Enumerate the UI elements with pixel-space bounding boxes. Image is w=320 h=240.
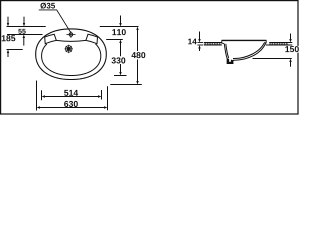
dim 110 reference line R2 bbox=[106, 39, 123, 41]
depth reference line bbox=[253, 58, 292, 60]
tap hole bbox=[69, 33, 73, 37]
dim 14 tick bottom bbox=[197, 44, 203, 46]
dim 514 extension right bbox=[101, 90, 103, 100]
label 185 bbox=[2, 35, 16, 41]
dim 55 reference line L2 bbox=[7, 34, 43, 36]
label 55 bbox=[18, 29, 25, 34]
label 514 bbox=[64, 90, 78, 96]
counter bottom line right bbox=[266, 44, 293, 46]
dim 480 arrow top bbox=[136, 27, 138, 52]
label 150 bbox=[285, 46, 299, 53]
bowl outer bottom curve bbox=[233, 43, 266, 60]
basin outer rim ellipse bbox=[36, 29, 107, 80]
dim 14 arrow top bbox=[198, 32, 200, 43]
label 480 bbox=[131, 52, 147, 59]
dim 150 arrow bottom bbox=[289, 59, 291, 67]
label 630 bbox=[64, 101, 78, 107]
counter bottom line left bbox=[204, 44, 222, 46]
counter hatch right bbox=[269, 43, 288, 46]
dim 185 arrow top bbox=[7, 17, 9, 27]
dim 330 arrow bottom bbox=[119, 64, 121, 76]
dim 330 reference line R3 bbox=[114, 75, 127, 77]
dim 14 arrow bottom bbox=[198, 45, 200, 51]
bowl inner bottom curve bbox=[233, 43, 265, 59]
dim 185 reference line L3 bbox=[7, 49, 23, 51]
dim 630 extension right bbox=[107, 86, 109, 110]
dim 630 line bbox=[37, 106, 108, 108]
dim 480 arrow bottom bbox=[136, 60, 138, 85]
rim right lip bbox=[264, 40, 266, 43]
dim 514 extension left bbox=[41, 90, 43, 100]
rim left lip bbox=[222, 40, 225, 43]
basin rim top bbox=[222, 39, 267, 41]
drain symbol bbox=[65, 45, 73, 53]
label 330 bbox=[112, 57, 126, 63]
dim 110 arrow top bbox=[119, 16, 121, 27]
label O35 bbox=[40, 3, 55, 9]
deck left step bbox=[45, 34, 57, 44]
dim 514 line bbox=[42, 95, 102, 97]
deck front arc under tap bbox=[56, 39, 85, 42]
dim 630 extension left bbox=[36, 81, 38, 111]
counter hatch left bbox=[204, 43, 222, 46]
dim 14 tick top bbox=[197, 42, 203, 44]
label 110 bbox=[112, 29, 125, 35]
counter top line left bbox=[204, 42, 222, 44]
bowl outer wall bbox=[224, 44, 227, 59]
basin bowl opening bbox=[42, 44, 101, 76]
deck right step bbox=[86, 34, 98, 44]
label 14 bbox=[188, 39, 197, 45]
label O35 leader bbox=[39, 10, 71, 32]
dim 55 arrow bottom bbox=[23, 35, 25, 46]
bowl inner wall bbox=[226, 44, 229, 58]
dim 55 arrow top bbox=[23, 17, 25, 27]
dim 150 arrow top bbox=[289, 34, 291, 43]
border frame bbox=[1, 1, 298, 114]
dim 55 / 185 reference line L1 bbox=[7, 26, 46, 28]
counter top line right bbox=[269, 42, 292, 44]
dim 110/480 reference line R1 bbox=[100, 26, 139, 28]
dim 110/330 shared arrow bbox=[119, 40, 121, 57]
dim 185 arrow bottom bbox=[7, 50, 9, 58]
drain fitting bbox=[227, 58, 233, 63]
dim 480 reference line R4 bbox=[110, 84, 142, 86]
